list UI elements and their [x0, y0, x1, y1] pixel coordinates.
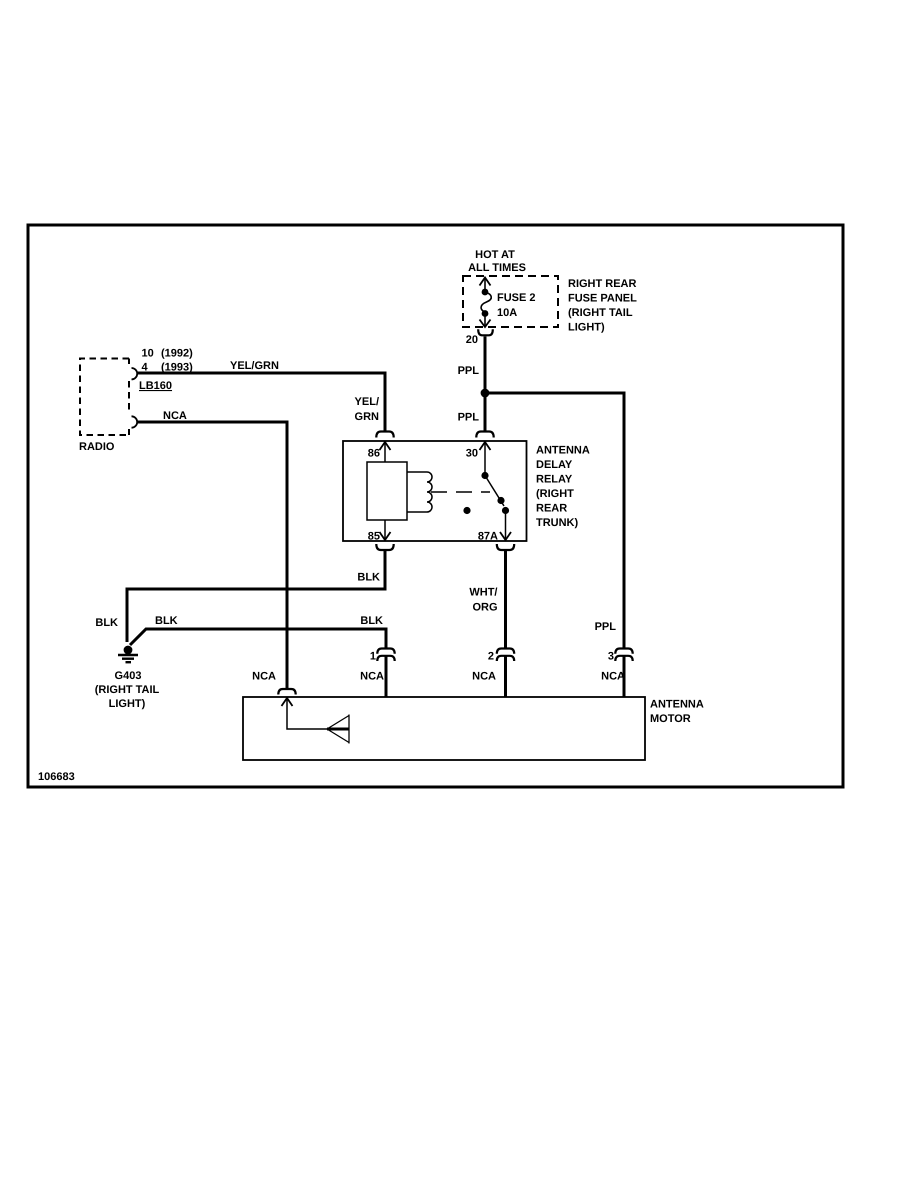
antenna motor box — [243, 697, 645, 760]
svg-text:(RIGHT TAIL: (RIGHT TAIL — [568, 307, 633, 319]
svg-text:3: 3 — [608, 651, 614, 663]
svg-text:ORG: ORG — [472, 602, 497, 614]
wire pin3 to motor — [623, 656, 626, 697]
svg-text:DELAY: DELAY — [536, 459, 573, 471]
connector at motor entry (radio NCA wire) — [278, 689, 295, 695]
svg-text:ANTENNA: ANTENNA — [650, 699, 704, 711]
svg-text:BLK: BLK — [360, 615, 383, 627]
svg-text:RELAY: RELAY — [536, 474, 573, 486]
motor input lead with arrow — [282, 698, 328, 729]
wire BLK from ground to motor pin 1 — [130, 629, 386, 649]
radio pin bracket (YEL/GRN) — [132, 368, 138, 379]
ground G403 — [118, 646, 138, 663]
label ANTENNA DELAY RELAY (RIGHT REAR TRUNK) — [536, 445, 590, 530]
svg-text:NCA: NCA — [163, 410, 187, 422]
svg-text:(1992): (1992) — [161, 348, 193, 360]
svg-text:10: 10 — [142, 348, 154, 360]
svg-text:PPL: PPL — [458, 412, 480, 424]
svg-text:NCA: NCA — [360, 671, 384, 683]
fuse panel box (dashed) — [463, 276, 558, 327]
svg-text:10A: 10A — [497, 307, 517, 319]
junction node on PPL wire — [481, 389, 490, 398]
svg-text:86: 86 — [368, 448, 380, 460]
label RIGHT REAR FUSE PANEL (RIGHT TAIL LIGHT) — [568, 278, 637, 334]
svg-text:HOT AT: HOT AT — [475, 249, 515, 261]
connector at relay pin 30 — [476, 432, 493, 438]
svg-text:BLK: BLK — [155, 615, 178, 627]
svg-text:MOTOR: MOTOR — [650, 713, 691, 725]
wire pin1 to motor — [385, 656, 388, 697]
inline connector pin 2 — [497, 649, 514, 662]
svg-text:FUSE PANEL: FUSE PANEL — [568, 293, 637, 305]
svg-text:LIGHT): LIGHT) — [109, 698, 146, 710]
svg-text:(RIGHT: (RIGHT — [536, 488, 574, 500]
svg-text:YEL/: YEL/ — [355, 396, 379, 408]
wire YEL/GRN from radio to relay 86 — [138, 373, 386, 432]
relay pin 86 lead with arrow — [380, 442, 391, 462]
wire pin2 to motor — [504, 656, 507, 697]
svg-text:BLK: BLK — [95, 617, 118, 629]
pin labels 10 (1992) / 4 (1993) — [142, 348, 194, 374]
svg-text:(RIGHT TAIL: (RIGHT TAIL — [95, 684, 160, 696]
svg-text:30: 30 — [466, 448, 478, 460]
svg-text:ALL TIMES: ALL TIMES — [468, 262, 526, 274]
svg-text:PPL: PPL — [458, 365, 480, 377]
connector below relay pin 87A — [497, 544, 514, 550]
svg-text:NCA: NCA — [601, 671, 625, 683]
svg-text:ANTENNA: ANTENNA — [536, 445, 590, 457]
connector at fuse panel output — [478, 329, 493, 335]
relay coil — [367, 462, 432, 520]
svg-text:87A: 87A — [478, 531, 498, 543]
connector at relay pin 86 — [376, 432, 393, 438]
radio box (dashed) — [80, 359, 129, 436]
wire WHT/ORG from relay 87A to motor pin 2 — [504, 550, 507, 649]
svg-text:YEL/GRN: YEL/GRN — [230, 360, 279, 372]
label G403 (RIGHT TAIL LIGHT) — [95, 670, 160, 710]
wire NCA from radio to motor — [138, 422, 288, 690]
svg-text:RADIO: RADIO — [79, 441, 115, 453]
svg-text:FUSE 2: FUSE 2 — [497, 292, 536, 304]
svg-text:PPL: PPL — [595, 621, 617, 633]
svg-text:106683: 106683 — [38, 771, 75, 783]
svg-text:LIGHT): LIGHT) — [568, 322, 605, 334]
inline connector pin 3 — [615, 649, 632, 662]
svg-text:REAR: REAR — [536, 503, 567, 515]
svg-text:GRN: GRN — [355, 411, 380, 423]
svg-text:WHT/: WHT/ — [469, 587, 497, 599]
svg-text:20: 20 — [466, 334, 478, 346]
relay box U1 — [343, 441, 527, 541]
border frame — [28, 225, 843, 787]
fuse F2 element (arrow, dots, squiggle) — [480, 278, 492, 328]
svg-text:85: 85 — [368, 531, 380, 543]
svg-text:TRUNK): TRUNK) — [536, 517, 578, 529]
wire PPL from fuse to junction — [484, 337, 487, 433]
svg-text:LB160: LB160 — [139, 380, 172, 392]
relay contact 87 (unused) — [463, 507, 470, 514]
dashed link coil to switch — [431, 491, 490, 493]
svg-text:NCA: NCA — [252, 671, 276, 683]
relay switch (pin 30 to 87A) — [480, 442, 512, 540]
svg-text:2: 2 — [488, 651, 494, 663]
svg-text:1: 1 — [370, 651, 376, 663]
connector below relay pin 85 — [376, 544, 393, 550]
svg-text:RIGHT REAR: RIGHT REAR — [568, 278, 637, 290]
svg-text:NCA: NCA — [472, 671, 496, 683]
radio pin bracket (NCA) — [132, 416, 138, 427]
antenna symbol inside motor — [327, 715, 349, 744]
wire BLK from relay 85 to ground run — [127, 550, 385, 643]
svg-text:G403: G403 — [115, 670, 142, 682]
svg-text:BLK: BLK — [357, 572, 380, 584]
wire from junction to right branch — [485, 393, 624, 649]
relay pin 85 lead with arrow — [380, 520, 391, 540]
inline connector pin 1 — [377, 649, 394, 662]
